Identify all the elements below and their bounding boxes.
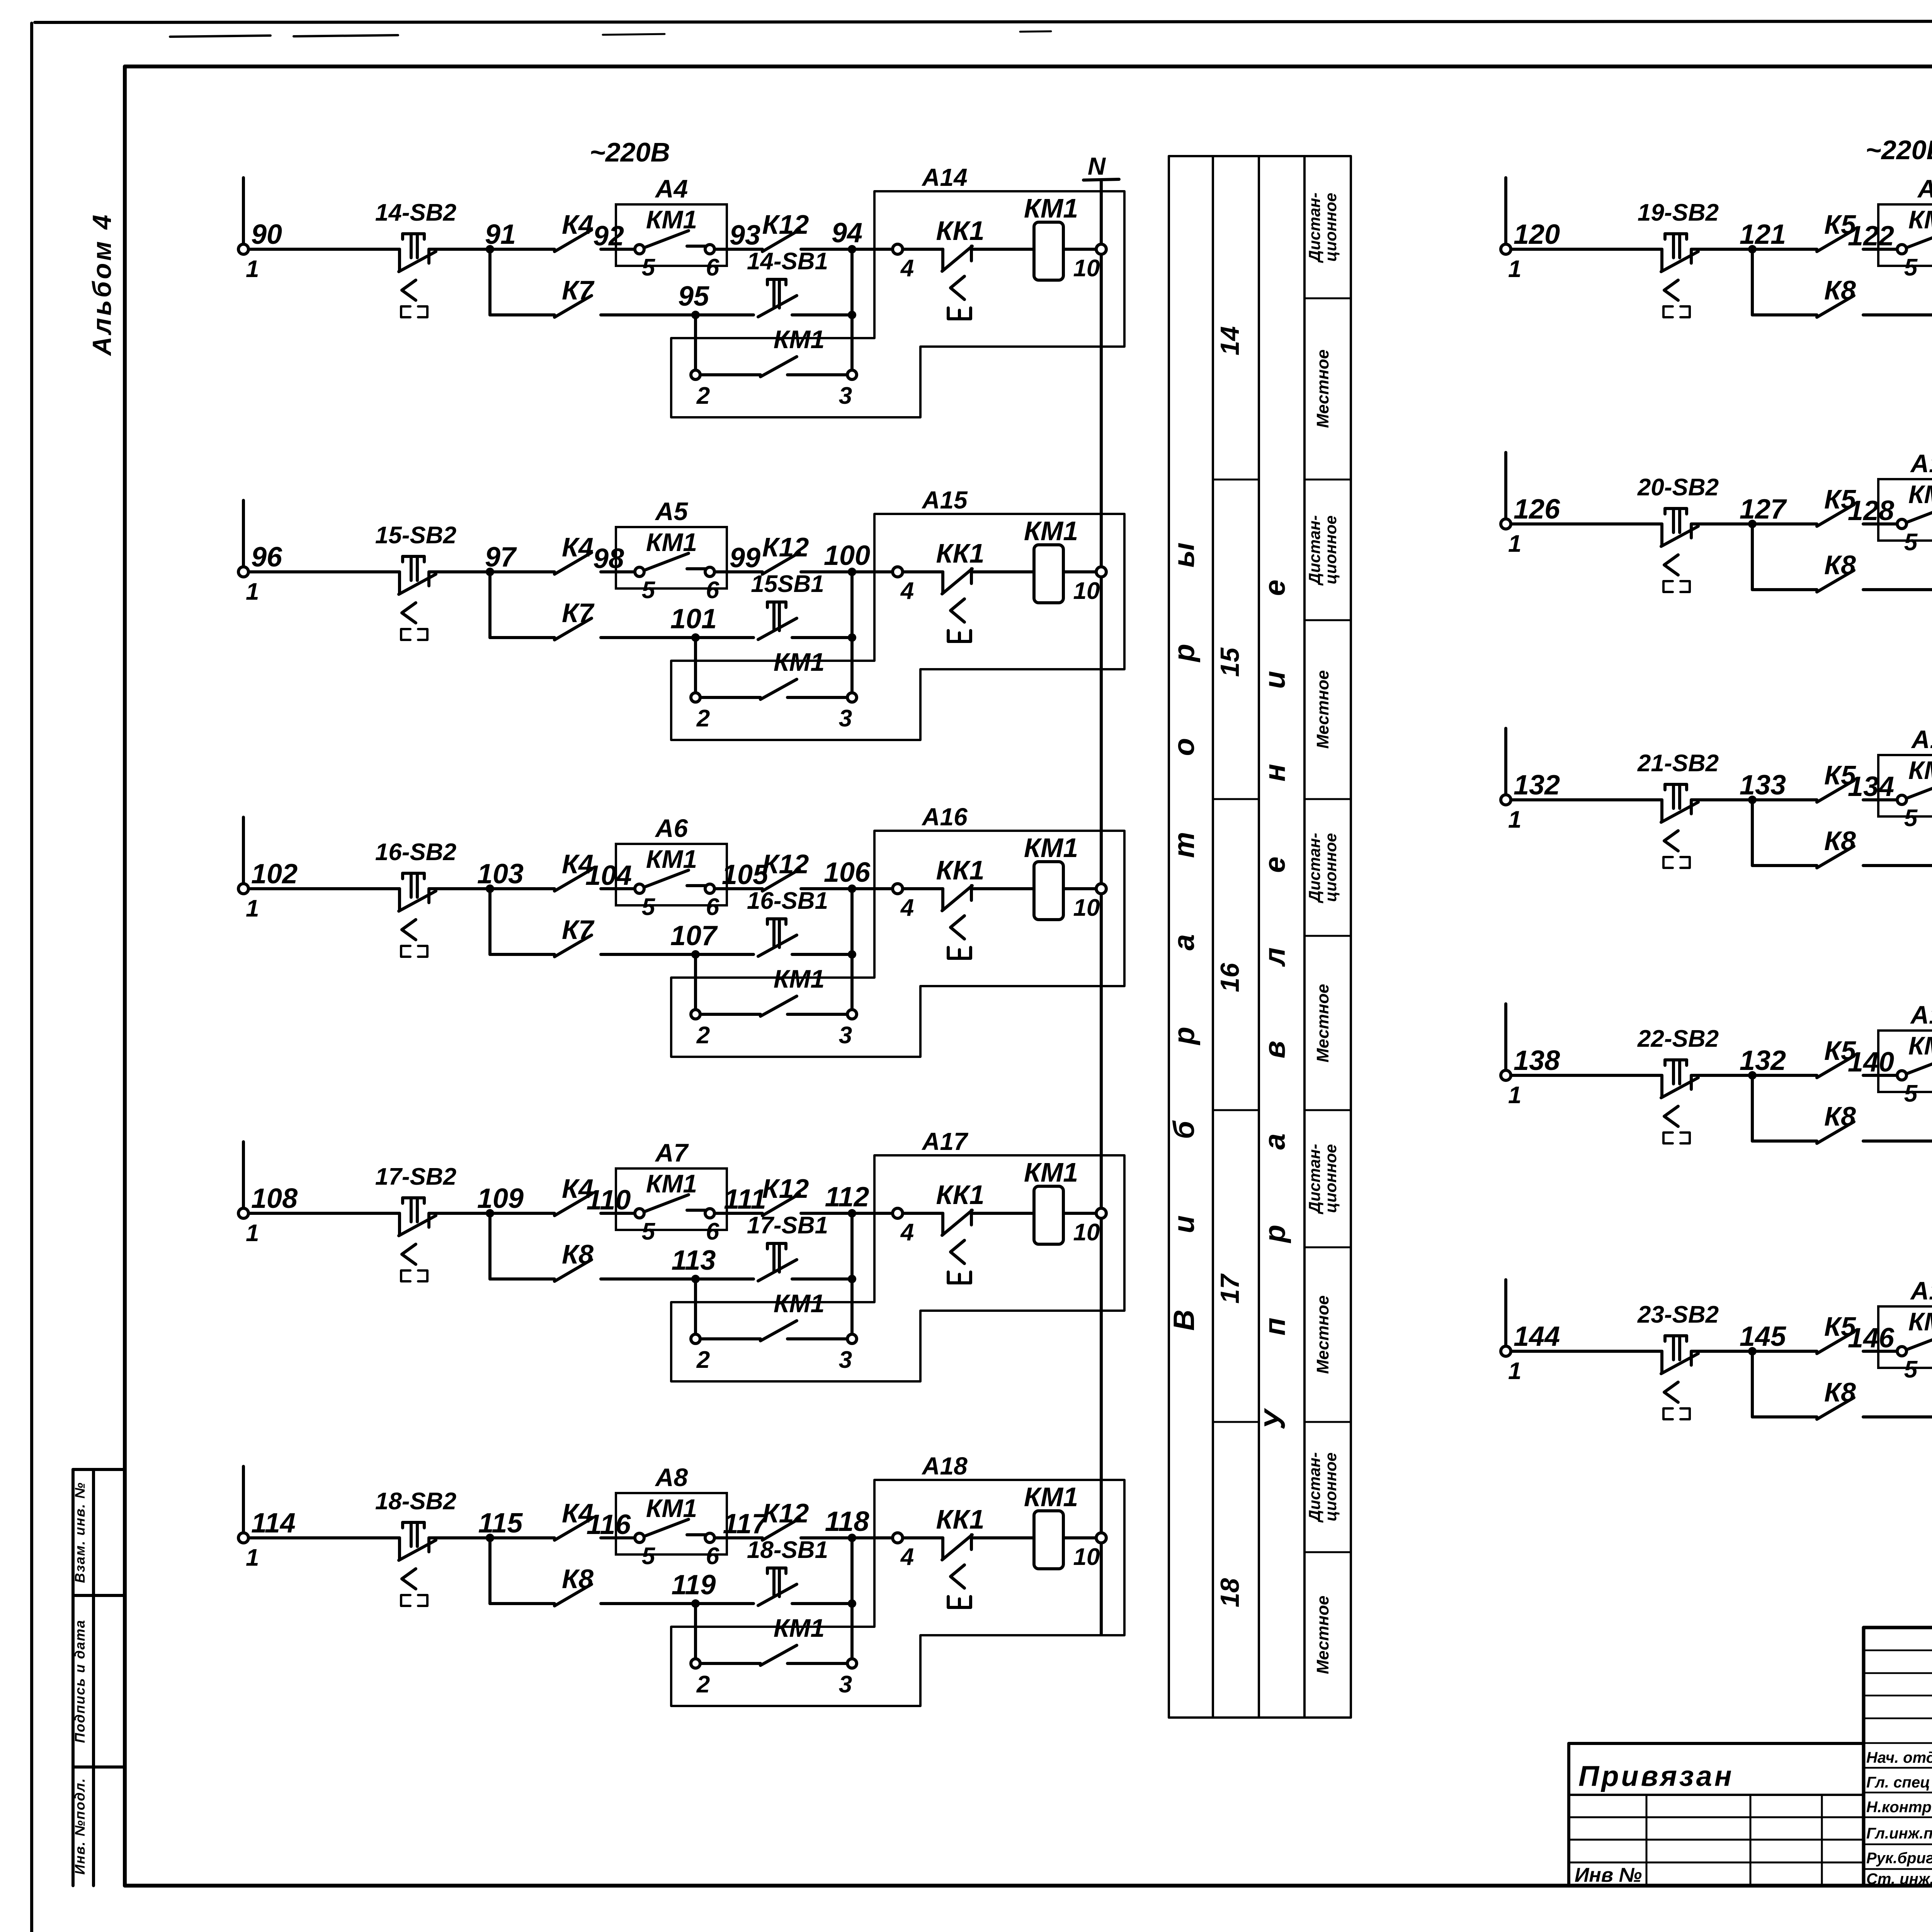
pin 6 <box>705 884 719 920</box>
svg-text:Местное: Местное <box>1313 1295 1332 1374</box>
wire branch <box>1752 800 1817 866</box>
svg-text:100: 100 <box>824 540 870 571</box>
wire <box>714 887 762 890</box>
label КК1 <box>936 1180 985 1210</box>
label 18-SB1 <box>747 1537 828 1563</box>
device box А16 <box>671 831 1124 1057</box>
contact КМ1 5-6 <box>644 1195 706 1212</box>
svg-text:КМ1: КМ1 <box>1024 1157 1078 1187</box>
label К5 <box>1824 1311 1856 1342</box>
wire <box>601 1536 639 1539</box>
node 145 <box>1740 1321 1786 1355</box>
svg-text:1: 1 <box>1508 256 1521 282</box>
svg-text:А9: А9 <box>1917 174 1932 203</box>
device box А7 <box>616 1168 727 1230</box>
svg-text:А15: А15 <box>921 486 968 514</box>
svg-text:А18: А18 <box>921 1452 968 1480</box>
node label 140 <box>1848 1047 1894 1078</box>
wire <box>248 1212 400 1215</box>
svg-text:21-SB2: 21-SB2 <box>1637 750 1719 777</box>
node label 96 <box>251 542 282 573</box>
wire branch <box>490 572 554 638</box>
svg-text:К7: К7 <box>562 598 595 628</box>
svg-text:1: 1 <box>246 895 259 922</box>
contact К8 <box>554 1260 592 1281</box>
label КМ1 <box>774 964 825 993</box>
wire <box>429 570 554 573</box>
contact К8 <box>1817 296 1854 317</box>
pin 6 <box>705 1533 719 1570</box>
pin 1 <box>246 1544 259 1571</box>
svg-text:5: 5 <box>642 254 656 281</box>
svg-text:КК1: КК1 <box>936 538 985 568</box>
label КМ1 <box>646 1494 697 1522</box>
node label 126 <box>1514 494 1560 525</box>
svg-text:117: 117 <box>723 1509 769 1539</box>
svg-text:КМ1: КМ1 <box>1024 193 1078 223</box>
svg-text:К12: К12 <box>762 849 809 879</box>
device box А12 <box>1878 1031 1932 1092</box>
pushbutton 14-SB1 <box>758 279 797 317</box>
node label 104 <box>585 860 632 891</box>
wire <box>903 887 943 890</box>
svg-text:КМ1: КМ1 <box>1908 205 1932 234</box>
wire <box>1863 522 1902 526</box>
column header Вибраторы <box>1168 543 1201 1331</box>
svg-text:16-SB2: 16-SB2 <box>375 839 456 866</box>
wire <box>1063 248 1096 251</box>
wire <box>714 1212 762 1215</box>
svg-text:Местное: Местное <box>1313 670 1332 748</box>
label КМ1 <box>1908 205 1932 234</box>
node 133 <box>1740 770 1786 804</box>
svg-text:Рук.бриг: Рук.бриг <box>1866 1850 1932 1867</box>
contact К4 <box>554 869 592 891</box>
pin 1 <box>1508 531 1521 557</box>
wire <box>1863 313 1932 316</box>
wire <box>1691 1350 1817 1353</box>
svg-text:1: 1 <box>1508 806 1521 833</box>
pin 5 <box>1897 795 1918 832</box>
label А4 <box>655 174 688 203</box>
svg-text:110: 110 <box>587 1185 631 1216</box>
label К12 <box>762 849 809 879</box>
pushbutton 15SB1 <box>758 602 797 639</box>
svg-text:2: 2 <box>696 1671 710 1698</box>
label КК1 <box>936 1504 985 1534</box>
svg-text:90: 90 <box>251 219 282 250</box>
node 95 <box>678 281 709 319</box>
label Подпись и дата <box>72 1619 88 1743</box>
svg-text:15: 15 <box>1215 647 1245 677</box>
label КМ1 <box>774 1289 825 1318</box>
svg-text:1: 1 <box>246 1544 259 1571</box>
node 101 <box>670 604 717 642</box>
svg-text:18-SB1: 18-SB1 <box>747 1537 828 1563</box>
pin 1 <box>1508 256 1521 282</box>
wire <box>601 887 639 890</box>
label КК1 <box>936 538 985 568</box>
svg-text:5: 5 <box>1904 254 1918 281</box>
contact К8 <box>1817 846 1854 868</box>
svg-text:ционное: ционное <box>1321 833 1340 902</box>
node label 134 <box>1848 771 1894 802</box>
device box А11 <box>1878 755 1932 816</box>
wire <box>601 953 753 956</box>
svg-text:А7: А7 <box>655 1138 689 1167</box>
coil КМ1 <box>1034 222 1063 280</box>
svg-text:3: 3 <box>839 1022 852 1049</box>
svg-text:Подпись и дата: Подпись и дата <box>72 1619 88 1743</box>
thermal relay contact КК1 <box>942 569 972 641</box>
label К12 <box>762 1498 809 1528</box>
table row dividers <box>1213 298 1351 1552</box>
cell Местное <box>1313 1295 1332 1374</box>
wire <box>971 248 1034 251</box>
coil КМ1 <box>1034 862 1063 920</box>
svg-text:Дистан-: Дистан- <box>1305 515 1323 585</box>
label К8 <box>1824 1377 1856 1407</box>
pushbutton 20-SB2 <box>1661 509 1698 592</box>
wire <box>1691 1074 1817 1077</box>
svg-text:1: 1 <box>246 1220 259 1247</box>
svg-text:146: 146 <box>1848 1323 1895 1354</box>
svg-text:Гл. спец: Гл. спец <box>1866 1774 1930 1791</box>
svg-text:К7: К7 <box>562 275 595 305</box>
wire <box>971 1212 1034 1215</box>
label А13 <box>1910 1276 1932 1305</box>
label К8 <box>1824 550 1856 580</box>
svg-text:1: 1 <box>246 256 259 282</box>
svg-text:4: 4 <box>900 255 914 282</box>
terminal 4 <box>893 1208 914 1246</box>
привязан box <box>1569 1743 1863 1886</box>
contact КМ1 5-6 <box>1906 505 1932 522</box>
node label 138 <box>1514 1045 1560 1076</box>
label 23-SB2 <box>1637 1301 1719 1328</box>
label К5 <box>1824 484 1856 514</box>
device box А6 <box>616 844 727 905</box>
svg-text:К12: К12 <box>762 1498 809 1528</box>
wire <box>1691 522 1817 526</box>
wire <box>850 1538 854 1658</box>
pin 1 <box>1508 1358 1521 1384</box>
pushbutton 18-SB2 <box>399 1522 436 1606</box>
wire <box>248 1536 400 1539</box>
node label 128 <box>1848 495 1894 526</box>
node label 122 <box>1848 221 1894 252</box>
svg-text:118: 118 <box>825 1506 869 1537</box>
label КМ1 <box>646 845 697 873</box>
svg-text:98: 98 <box>593 543 624 574</box>
svg-text:4: 4 <box>900 578 914 604</box>
wire branch <box>1752 249 1817 315</box>
wire branch <box>1752 1351 1817 1417</box>
node 112 <box>825 1182 869 1218</box>
svg-text:5: 5 <box>642 577 656 604</box>
contact КМ1 2-3 <box>700 357 847 377</box>
node 127 <box>1740 494 1787 528</box>
svg-text:К8: К8 <box>1824 826 1856 856</box>
label А18 <box>921 1452 968 1480</box>
signature row Гл.инж.пр Бобрин <box>1866 1824 1932 1842</box>
wire <box>801 1536 893 1539</box>
terminal 132 <box>1501 728 1511 805</box>
pin 5 <box>1897 1347 1918 1383</box>
label КМ1 <box>646 205 697 234</box>
row number 17 <box>1215 1273 1245 1304</box>
svg-text:15SB1: 15SB1 <box>751 571 824 597</box>
terminal 4 <box>893 567 914 604</box>
terminal 4 <box>893 244 914 282</box>
wire <box>429 887 554 890</box>
terminal 102 <box>238 817 248 894</box>
label 16-SB2 <box>375 839 456 866</box>
svg-text:А10: А10 <box>1910 449 1932 478</box>
label А17 <box>921 1128 969 1155</box>
svg-text:5: 5 <box>1904 805 1918 832</box>
terminal 10 <box>1073 1208 1106 1246</box>
pin 6 <box>705 245 719 281</box>
pin 5 <box>635 245 656 281</box>
svg-text:17: 17 <box>1215 1273 1245 1304</box>
pushbutton 17-SB2 <box>399 1198 436 1281</box>
label КМ1 <box>1908 480 1932 509</box>
row number 16 <box>1215 963 1245 992</box>
contact К5 <box>1817 230 1854 252</box>
node 121 <box>1740 219 1786 253</box>
svg-text:1: 1 <box>1508 531 1521 557</box>
contact КМ1 2-3 <box>700 1321 847 1341</box>
node label 92 <box>593 221 624 252</box>
junction <box>848 1275 856 1283</box>
svg-text:КМ1: КМ1 <box>1024 1482 1078 1512</box>
label К7 <box>562 275 595 305</box>
terminal 120 <box>1501 178 1511 254</box>
label 18-SB2 <box>375 1488 456 1515</box>
label КК1 <box>936 855 985 885</box>
svg-text:5: 5 <box>1904 1356 1918 1383</box>
svg-text:99: 99 <box>730 543 760 573</box>
svg-text:Нач. отд: Нач. отд <box>1866 1749 1932 1766</box>
wire <box>429 248 554 251</box>
svg-text:138: 138 <box>1514 1045 1560 1076</box>
svg-text:105: 105 <box>722 859 769 890</box>
contact К12 <box>762 869 799 891</box>
contact КМ1 5-6 <box>1906 1057 1932 1074</box>
svg-text:115: 115 <box>478 1508 523 1539</box>
svg-text:6: 6 <box>706 1218 719 1245</box>
svg-text:3: 3 <box>839 1671 852 1698</box>
pin 2 <box>691 1659 710 1698</box>
svg-text:116: 116 <box>587 1509 631 1540</box>
cell Местное <box>1313 984 1332 1062</box>
svg-text:6: 6 <box>706 1543 719 1570</box>
svg-text:КК1: КК1 <box>936 1504 985 1534</box>
selector table frame <box>1169 156 1351 1718</box>
wire <box>850 249 854 370</box>
node label 120 <box>1514 219 1560 250</box>
wire <box>601 313 753 316</box>
wire <box>601 1602 753 1605</box>
pin 5 <box>1897 1071 1918 1107</box>
coil КМ1 <box>1034 1186 1063 1244</box>
wire <box>1863 1350 1902 1353</box>
wire <box>1511 248 1662 251</box>
label Привязан <box>1578 1760 1734 1792</box>
svg-text:95: 95 <box>678 281 709 312</box>
contact К12 <box>762 1519 799 1540</box>
node label 98 <box>593 543 624 574</box>
node label 132 <box>1514 770 1560 801</box>
left margin stamp cells <box>73 1469 125 1886</box>
svg-text:126: 126 <box>1514 494 1560 525</box>
svg-text:17-SB1: 17-SB1 <box>747 1212 828 1239</box>
svg-text:5: 5 <box>1904 1080 1918 1107</box>
node label 146 <box>1848 1323 1895 1354</box>
pushbutton 21-SB2 <box>1661 784 1698 868</box>
svg-text:103: 103 <box>477 859 524 889</box>
album note <box>87 213 117 356</box>
pin 2 <box>691 1010 710 1049</box>
revision grid <box>1864 1628 1932 1743</box>
pin 5 <box>635 567 656 604</box>
node 107 <box>670 920 718 959</box>
signature row Ст. инж. Заллер <box>1866 1869 1932 1888</box>
cell Дистанционное <box>1305 192 1340 263</box>
contact К7 <box>554 296 592 317</box>
label КК1 <box>936 216 985 246</box>
signature grid <box>1864 1743 1932 1886</box>
wire <box>1511 522 1662 526</box>
net N symbol (left) <box>1083 152 1119 180</box>
svg-text:А12: А12 <box>1910 1000 1932 1029</box>
svg-text:ционное: ционное <box>1321 193 1340 262</box>
svg-text:113: 113 <box>672 1245 716 1276</box>
svg-text:А17: А17 <box>921 1128 969 1155</box>
label КМ1 <box>1024 833 1078 863</box>
svg-text:КМ1: КМ1 <box>774 325 825 354</box>
svg-text:133: 133 <box>1740 770 1786 801</box>
cell Дистанционное <box>1305 1452 1340 1522</box>
pin 1 <box>1508 1082 1521 1109</box>
thermal relay contact КК1 <box>942 886 972 958</box>
node label 144 <box>1514 1321 1560 1352</box>
svg-text:5: 5 <box>642 894 656 920</box>
N bus (left) <box>1100 180 1103 1634</box>
label А7 <box>655 1138 689 1167</box>
wire <box>792 313 852 316</box>
svg-text:К8: К8 <box>1824 550 1856 580</box>
node label 114 <box>251 1508 296 1539</box>
junction <box>848 633 856 642</box>
label 22-SB2 <box>1637 1026 1719 1052</box>
wire <box>801 1212 893 1215</box>
cell Местное <box>1313 1595 1332 1674</box>
svg-text:104: 104 <box>585 860 632 891</box>
pushbutton 19-SB2 <box>1661 234 1698 317</box>
node 132 <box>1740 1045 1786 1080</box>
svg-text:К4: К4 <box>562 209 594 240</box>
svg-text:119: 119 <box>672 1570 716 1600</box>
node 113 <box>672 1245 716 1283</box>
wire <box>694 638 697 693</box>
svg-text:3: 3 <box>839 1347 852 1373</box>
label 14-SB2 <box>375 199 456 226</box>
svg-text:~220В: ~220В <box>1866 135 1932 165</box>
svg-text:6: 6 <box>706 577 719 604</box>
label А15 <box>921 486 968 514</box>
wire <box>694 1279 697 1334</box>
coil КМ1 <box>1034 1511 1063 1569</box>
pushbutton 16-SB2 <box>399 873 436 957</box>
svg-text:17-SB2: 17-SB2 <box>375 1163 456 1190</box>
svg-text:16: 16 <box>1215 963 1245 992</box>
svg-text:К12: К12 <box>762 209 809 240</box>
svg-text:Дистан-: Дистан- <box>1305 192 1323 263</box>
wire <box>429 1212 554 1215</box>
svg-text:22-SB2: 22-SB2 <box>1637 1026 1719 1052</box>
label 14-SB1 <box>747 248 828 275</box>
svg-text:111: 111 <box>724 1184 766 1215</box>
contact К5 <box>1817 781 1854 802</box>
label 15-SB2 <box>375 522 456 549</box>
contact КМ1 5-6 <box>644 870 706 887</box>
svg-text:К12: К12 <box>762 1173 809 1204</box>
terminal 10 <box>1073 567 1106 604</box>
svg-text:2: 2 <box>696 1347 710 1373</box>
device box А17 <box>671 1155 1124 1381</box>
svg-text:КМ1: КМ1 <box>1908 1031 1932 1060</box>
svg-text:106: 106 <box>824 857 871 888</box>
label 15SB1 <box>751 571 824 597</box>
pin 3 <box>839 1659 857 1698</box>
node label 102 <box>251 859 298 889</box>
contact К8 <box>1817 1398 1854 1419</box>
device box А8 <box>616 1493 727 1554</box>
wire <box>248 248 400 251</box>
svg-text:А8: А8 <box>655 1463 688 1492</box>
svg-text:КМ1: КМ1 <box>774 964 825 993</box>
contact КМ1 5-6 <box>644 553 706 570</box>
contact КМ1 2-3 <box>700 996 847 1016</box>
svg-text:107: 107 <box>670 920 718 951</box>
wire <box>792 636 852 639</box>
svg-text:91: 91 <box>485 219 516 250</box>
cell Местное <box>1313 349 1332 428</box>
svg-text:18-SB2: 18-SB2 <box>375 1488 456 1515</box>
paper left border <box>30 23 33 1932</box>
wire <box>1863 798 1902 801</box>
wire <box>601 636 753 639</box>
node label 93 <box>730 220 760 251</box>
wire <box>248 887 400 890</box>
pin 1 <box>246 1220 259 1247</box>
label КМ1 <box>1908 1307 1932 1336</box>
device box А18 <box>671 1480 1124 1706</box>
device box А4 <box>616 204 727 266</box>
wire <box>1063 1536 1096 1539</box>
wire branch <box>1752 1075 1817 1141</box>
terminal 10 <box>1073 884 1106 921</box>
pin 3 <box>839 370 857 409</box>
svg-text:94: 94 <box>832 218 862 248</box>
cell Местное <box>1313 670 1332 748</box>
svg-text:КК1: КК1 <box>936 855 985 885</box>
label К4 <box>562 532 594 562</box>
svg-text:Ст. инж.: Ст. инж. <box>1866 1871 1932 1888</box>
svg-text:18: 18 <box>1215 1578 1245 1607</box>
